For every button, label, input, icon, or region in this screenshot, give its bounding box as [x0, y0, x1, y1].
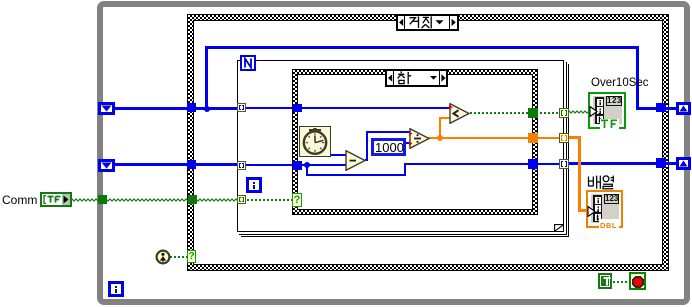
while loop stop terminal	[629, 272, 646, 290]
wire row1 to less-than	[300, 107, 450, 109]
shift register right row1	[676, 102, 691, 115]
wire green dotted first-call to selector	[170, 256, 188, 258]
shift register left row1	[98, 102, 115, 115]
tunnel case-right row2	[656, 158, 666, 168]
tunnel for-left row2	[237, 161, 246, 170]
wire subtract to divide	[366, 131, 410, 133]
node row2 junction	[304, 162, 310, 168]
wire clock to subtract	[330, 154, 346, 156]
tunnel case-left boolean	[188, 195, 197, 204]
wire row2 right to SR	[567, 162, 678, 165]
for loop dog-ear corner	[554, 224, 563, 231]
less-than function	[449, 103, 470, 124]
wire row2 detour down	[306, 164, 308, 176]
wire row1 inside for loop	[243, 107, 303, 109]
wire row1 right to SR	[636, 107, 678, 110]
case structure (inner, 참 frame)	[292, 69, 538, 215]
wire row2 to inner tunnel	[404, 163, 532, 165]
case selector label 거짓	[396, 14, 459, 31]
node row1 junction	[204, 106, 210, 112]
tunnel inner-case-right orange	[528, 133, 538, 143]
tunnel case-left row1 (blue solid)	[187, 103, 196, 112]
wire green zigzag for tunnel to Over10Sec	[567, 109, 593, 116]
wire subtract up	[366, 131, 368, 161]
tunnel for-right blue	[559, 159, 569, 169]
wire row2 SR-left to case tunnel	[113, 163, 189, 166]
subtract function	[345, 150, 366, 171]
wire row2 detour bottom	[306, 174, 406, 176]
case structure (outer, 거짓 frame)	[187, 14, 669, 271]
selector terminal ? (inner case)	[292, 193, 302, 207]
boolean constant T	[598, 273, 612, 289]
wire row1 case tunnel to for tunnel	[194, 107, 239, 110]
tunnel for-left boolean	[237, 195, 246, 204]
shift register left row2	[98, 159, 115, 172]
wire green dotted boolean to inner selector	[243, 199, 292, 201]
for loop iteration terminal i	[246, 177, 262, 193]
Over10Sec boolean array indicator	[588, 92, 626, 129]
first call? node	[155, 249, 171, 265]
wire row2 detour up	[404, 163, 406, 176]
wire row1 SR-left to case tunnel	[113, 107, 189, 110]
tunnel for-left row1 (indexing)	[237, 103, 246, 112]
wire 1000 to divide	[405, 142, 411, 144]
wire orange between tunnels	[536, 137, 562, 139]
wire orange to array indicator	[578, 209, 587, 212]
tunnel while-left boolean (green solid)	[98, 195, 107, 204]
wire orange to less-than	[439, 117, 450, 119]
wire green zigzag case tunnel to for tunnel	[194, 197, 240, 203]
wire row2 between tunnels	[536, 163, 562, 165]
node orange junction	[437, 135, 443, 141]
배열 numeric array indicator	[586, 190, 623, 228]
wire green dotted T to stop	[613, 281, 630, 283]
tunnel inner-case-left row1 (blue solid)	[293, 104, 302, 112]
tunnel for-right green (indexing)	[559, 108, 569, 118]
shift register right row2	[676, 157, 691, 170]
wire row2 case tunnel to for tunnel	[194, 163, 239, 166]
wire bypass top	[205, 46, 639, 49]
wire bypass up	[205, 46, 208, 108]
wire orange up	[439, 117, 441, 137]
tunnel inner-case-right blue	[528, 159, 538, 169]
wire row2 tunnel to subtract	[300, 164, 346, 166]
배열 label (array)	[587, 175, 615, 190]
wire divide out orange	[428, 137, 440, 139]
tunnel case-right row1	[656, 103, 666, 112]
for loop N frame (stacked pages)	[241, 64, 569, 237]
for loop count terminal N	[240, 55, 256, 71]
tick count (ms) clock	[299, 126, 331, 157]
wire green dotted between tunnels	[536, 112, 562, 114]
wire bypass down	[636, 46, 639, 110]
Over10Sec label	[591, 77, 649, 90]
numeric constant 1000	[371, 138, 406, 156]
wire green zigzag Comm to while tunnel	[70, 197, 100, 203]
wire subtract out	[365, 159, 368, 161]
wire orange down	[578, 136, 581, 212]
wire orange out of for loop	[567, 136, 581, 139]
tunnel for-right orange	[559, 133, 569, 143]
while loop iteration terminal i	[108, 281, 124, 297]
selector terminal ? (outer case)	[187, 250, 196, 263]
tunnel inner-case-right green	[528, 108, 538, 118]
wire orange row	[442, 137, 532, 139]
tunnel inner-case-left row2	[293, 161, 302, 170]
divide function	[409, 128, 430, 149]
wire row2 inside for loop	[243, 164, 295, 166]
wire green dotted less-than out	[470, 112, 532, 114]
case selector label 참	[385, 69, 448, 87]
wire green zigzag while tunnel to case tunnel	[104, 197, 190, 203]
tunnel case-left row2	[187, 160, 196, 169]
Comm label	[2, 194, 37, 207]
Comm boolean array control terminal	[40, 192, 72, 207]
